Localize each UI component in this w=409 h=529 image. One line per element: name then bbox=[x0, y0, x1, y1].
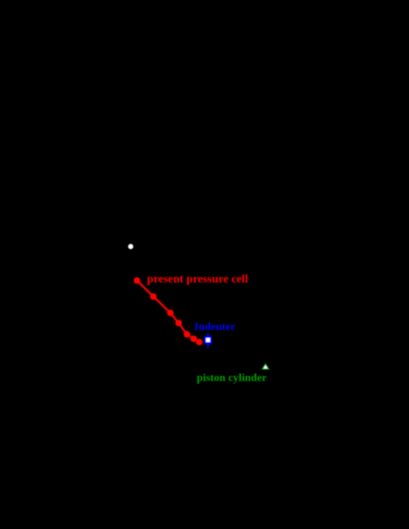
svg-text:Indenter: Indenter bbox=[194, 321, 235, 333]
svg-text:present pressure cell: present pressure cell bbox=[147, 273, 249, 286]
svg-text:piston cylinder: piston cylinder bbox=[197, 372, 267, 384]
